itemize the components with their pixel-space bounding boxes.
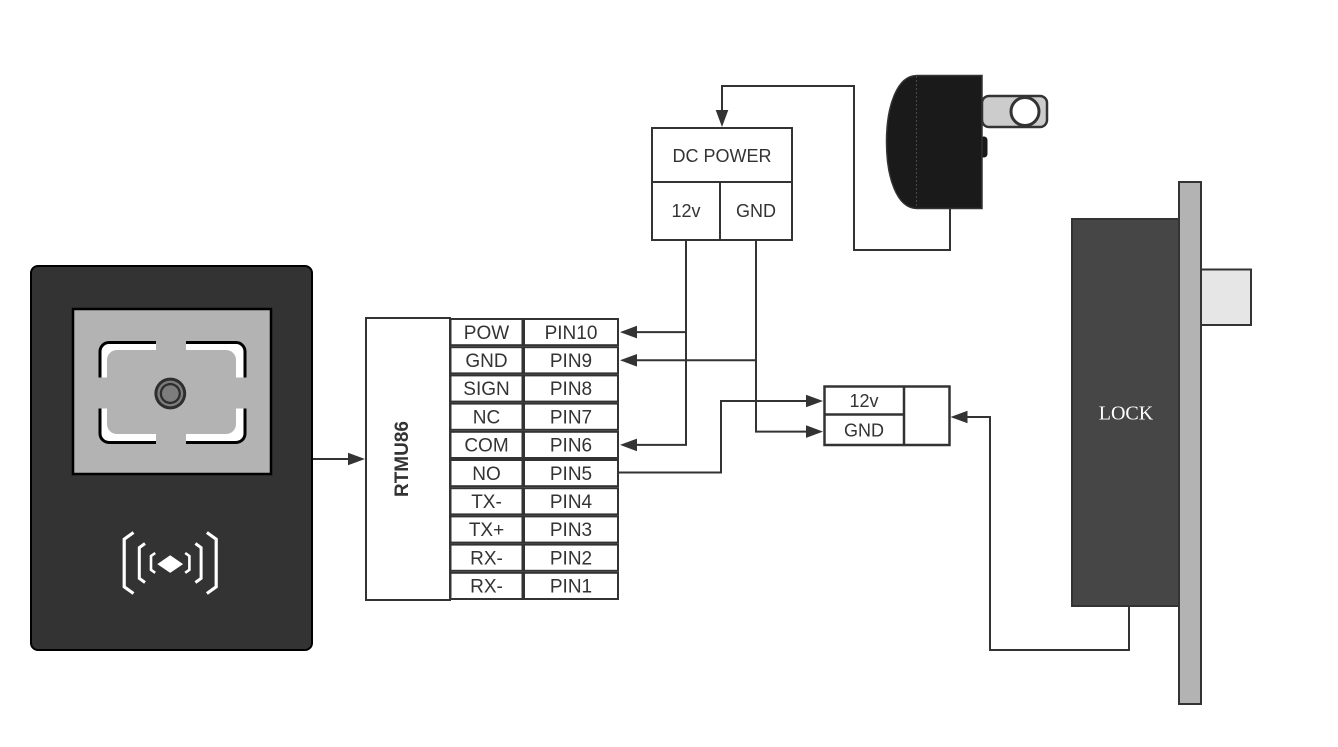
- svg-text:PIN2: PIN2: [550, 548, 592, 569]
- svg-text:NO: NO: [472, 464, 501, 485]
- svg-text:RTMU86: RTMU86: [392, 421, 413, 497]
- svg-text:GND: GND: [736, 201, 776, 221]
- svg-text:12v: 12v: [671, 201, 700, 221]
- svg-text:PIN10: PIN10: [545, 323, 598, 344]
- svg-text:DC POWER: DC POWER: [673, 146, 772, 166]
- svg-text:PIN8: PIN8: [550, 379, 592, 400]
- svg-text:PIN4: PIN4: [550, 492, 593, 513]
- svg-text:TX+: TX+: [469, 520, 504, 541]
- svg-text:PIN1: PIN1: [550, 577, 592, 598]
- svg-text:NC: NC: [473, 407, 500, 428]
- svg-text:PIN3: PIN3: [550, 520, 592, 541]
- svg-text:TX-: TX-: [471, 492, 502, 513]
- svg-text:PIN9: PIN9: [550, 351, 592, 372]
- svg-text:PIN5: PIN5: [550, 464, 592, 485]
- svg-text:GND: GND: [844, 421, 884, 441]
- svg-text:PIN6: PIN6: [550, 436, 592, 457]
- svg-text:12v: 12v: [849, 391, 878, 411]
- svg-text:COM: COM: [464, 436, 508, 457]
- svg-text:SIGN: SIGN: [463, 379, 509, 400]
- svg-text:RX-: RX-: [470, 577, 503, 598]
- svg-text:PIN7: PIN7: [550, 407, 592, 428]
- svg-text:RX-: RX-: [470, 548, 503, 569]
- svg-text:LOCK: LOCK: [1099, 403, 1154, 425]
- svg-text:GND: GND: [465, 351, 507, 372]
- svg-text:POW: POW: [464, 323, 509, 344]
